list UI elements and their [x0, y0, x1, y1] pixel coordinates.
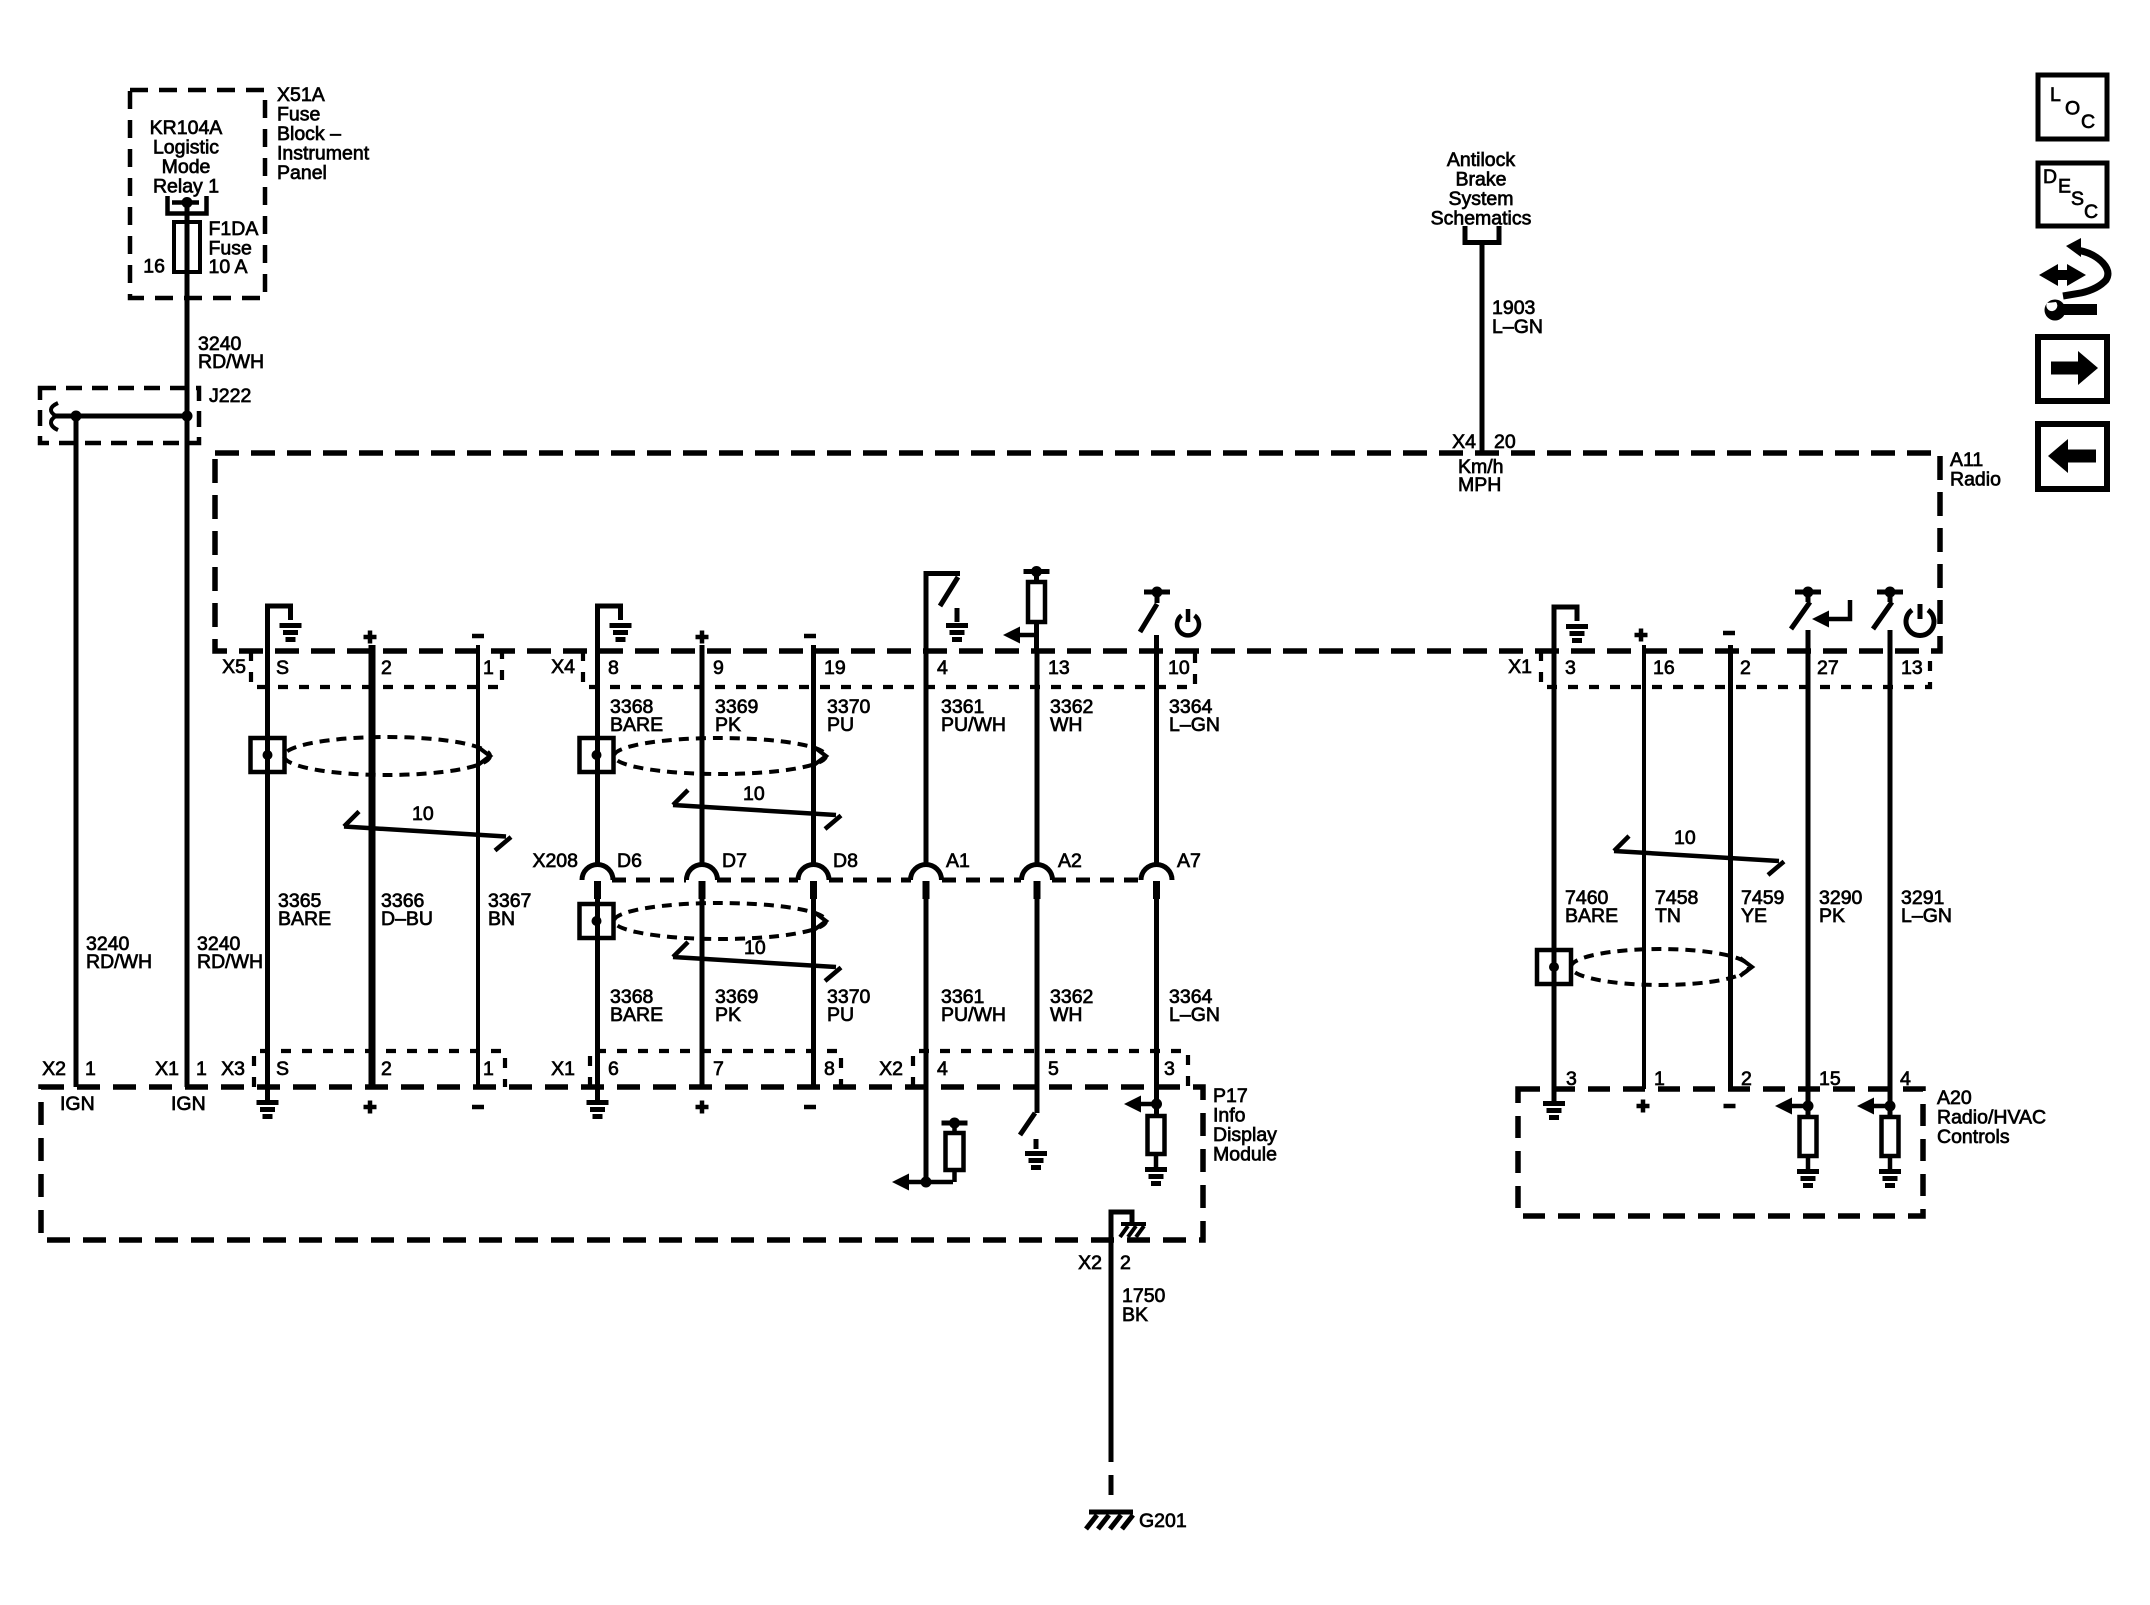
svg-text:RD/WH: RD/WH — [198, 351, 264, 373]
svg-text:19: 19 — [824, 657, 846, 679]
wire display X2-3 internal — [1154, 1087, 1159, 1116]
svg-text:BARE: BARE — [278, 908, 331, 930]
switch to ground display X2-5 — [1020, 1087, 1037, 1149]
svg-text:RD/WH: RD/WH — [197, 951, 263, 973]
svg-text:X1: X1 — [551, 1058, 575, 1080]
svg-text:10 A: 10 A — [209, 256, 248, 278]
ground G201 — [1086, 1512, 1133, 1529]
arrowhead controls A20-15 — [1775, 1098, 1792, 1115]
harness slash mid upper 10 — [673, 790, 841, 829]
relay KR104A contact bracket — [168, 196, 207, 214]
resistor leads display X2-4 — [952, 1123, 957, 1182]
wire display X2-4 internal — [924, 1087, 929, 1184]
svg-text:YE: YE — [1741, 905, 1767, 927]
svg-text:X1: X1 — [155, 1058, 179, 1080]
plus controls A20-1 — [1637, 1100, 1650, 1113]
wire controls A20-15 internal — [1806, 1089, 1811, 1117]
A20 controls dashed box — [1518, 1089, 1923, 1216]
pin stub X208 A1 — [923, 881, 930, 899]
wire J222 horizontal — [54, 414, 187, 419]
junction box J222 dashed — [40, 388, 199, 443]
svg-text:PK: PK — [715, 1004, 741, 1026]
ground bars display X2-5 — [1025, 1154, 1047, 1168]
J222 splice continuation hook — [51, 403, 58, 430]
svg-text:3: 3 — [1164, 1058, 1175, 1080]
wire 3368 BARE shield — [595, 651, 600, 1100]
svg-text:BARE: BARE — [1565, 905, 1618, 927]
plus radio X1-16 — [1635, 629, 1648, 642]
shield box 3368 lower — [580, 904, 614, 938]
svg-text:S: S — [276, 1058, 289, 1080]
svg-text:BARE: BARE — [610, 1004, 663, 1026]
svg-text:10: 10 — [743, 783, 765, 805]
ground bars display X2-3 — [1145, 1170, 1167, 1184]
wire 3240 RD/WH to X1-1 IGN — [185, 416, 190, 1087]
icon forward arrow — [2051, 362, 2080, 375]
plus display X3-2 — [364, 1101, 377, 1114]
minus radio X1-2 — [1723, 631, 1735, 636]
twisted pair chevron mid upper — [814, 747, 826, 765]
svg-text:BARE: BARE — [610, 714, 663, 736]
shield box 7460 — [1537, 950, 1571, 984]
svg-text:1: 1 — [483, 657, 494, 679]
pin stub X208 D6 — [594, 881, 601, 899]
connector X3 pin box — [254, 1051, 505, 1087]
switch radio X1-27 — [1791, 594, 1810, 629]
svg-text:C: C — [2084, 201, 2098, 223]
svg-text:PK: PK — [1819, 905, 1845, 927]
svg-text:S: S — [276, 657, 289, 679]
svg-text:Panel: Panel — [277, 162, 327, 184]
signal arrow display X2-4 — [906, 1180, 953, 1185]
svg-text:8: 8 — [824, 1058, 835, 1080]
wire 3364 L-GN — [1154, 651, 1159, 1087]
connector X1 radio pin box — [1541, 651, 1930, 687]
icon back arrow — [2066, 450, 2096, 463]
plus display X1-7 — [696, 1101, 709, 1114]
wire 1750 BK — [1109, 1240, 1114, 1442]
svg-text:X1: X1 — [1508, 656, 1532, 678]
svg-text:MPH: MPH — [1458, 474, 1501, 496]
minus controls A20-2 — [1724, 1104, 1736, 1109]
rail bar radio X4-10 — [1144, 590, 1170, 595]
pin stub X208 A7 — [1153, 881, 1160, 899]
svg-text:X5: X5 — [222, 656, 246, 678]
pin stub X208 D8 — [810, 881, 817, 899]
harness slash right 10 — [1614, 836, 1784, 875]
wire 3290 PK — [1806, 630, 1811, 1089]
arrowhead display X2-4 — [892, 1174, 909, 1191]
svg-text:10: 10 — [1674, 827, 1696, 849]
svg-text:2: 2 — [1740, 657, 1751, 679]
svg-text:2: 2 — [381, 1058, 392, 1080]
rail bar radio X1-13 — [1877, 590, 1903, 595]
signal arrow radio X1-27 — [1826, 600, 1850, 619]
svg-text:16: 16 — [1653, 657, 1675, 679]
svg-text:A2: A2 — [1058, 850, 1082, 872]
svg-text:4: 4 — [1900, 1068, 1911, 1090]
svg-text:5: 5 — [1048, 1058, 1059, 1080]
svg-text:Schematics: Schematics — [1431, 208, 1532, 230]
twisted pair ellipse right — [1571, 949, 1749, 985]
icon LOC box — [2038, 75, 2107, 139]
twisted pair ellipse mid upper — [614, 738, 826, 774]
svg-text:TN: TN — [1655, 905, 1681, 927]
wire relay to fuse — [185, 204, 190, 222]
minus radio X5-1 — [472, 634, 484, 639]
svg-text:C: C — [2081, 111, 2095, 133]
junction dot J222 right — [182, 411, 193, 422]
ground bars controls A20-15 — [1797, 1172, 1819, 1186]
signal arrow radio X4-13 — [1017, 633, 1037, 638]
twisted pair chevron right — [1740, 958, 1752, 976]
rail dot radio X4-10 — [1152, 587, 1163, 598]
arrowhead radio X1-27 — [1812, 611, 1829, 628]
ground bars radio X5-S — [280, 626, 302, 640]
wire 3370 PU — [811, 645, 816, 1087]
svg-text:3: 3 — [1566, 1068, 1577, 1090]
arc X208 A7 — [1141, 865, 1172, 881]
arrowhead controls A20-4 — [1857, 1098, 1874, 1115]
minus radio X4-19 — [804, 634, 816, 639]
svg-text:L–GN: L–GN — [1492, 316, 1543, 338]
resistor lead display X2-3 — [1154, 1154, 1159, 1167]
relay contact dot — [182, 197, 193, 208]
svg-text:10: 10 — [1168, 657, 1190, 679]
wire 1750 BK dashed — [1109, 1442, 1114, 1506]
rail bar display X2-4 — [942, 1121, 968, 1126]
arc X208 D7 — [687, 865, 718, 881]
shield box 3368 upper — [580, 738, 614, 772]
svg-text:9: 9 — [713, 657, 724, 679]
switch radio X1-13 — [1873, 594, 1892, 629]
wire 3367 BN — [476, 645, 480, 1087]
harness slash mid lower 10 — [673, 942, 841, 981]
arrowhead display X2-3 — [1124, 1096, 1141, 1113]
svg-text:16: 16 — [143, 256, 165, 278]
wire fuse internal — [185, 222, 190, 272]
svg-text:1: 1 — [1654, 1068, 1665, 1090]
svg-text:1: 1 — [483, 1058, 494, 1080]
svg-text:BK: BK — [1122, 1304, 1148, 1326]
fuse F1DA body — [174, 222, 200, 272]
wire 7458 TN — [1642, 645, 1646, 1089]
svg-text:X3: X3 — [221, 1058, 245, 1080]
svg-text:10: 10 — [412, 803, 434, 825]
shield dot 3365 — [263, 750, 273, 760]
junction dot display X2-4 — [921, 1177, 932, 1188]
signal arrow controls A20-4 — [1871, 1104, 1890, 1109]
svg-text:15: 15 — [1819, 1068, 1841, 1090]
wire 7459 YE — [1728, 645, 1733, 1089]
svg-text:D–BU: D–BU — [381, 908, 433, 930]
arc X208 A1 — [911, 865, 942, 881]
svg-text:IGN: IGN — [171, 1093, 206, 1115]
wire 3362 WH — [1035, 651, 1040, 1087]
svg-text:RD/WH: RD/WH — [86, 951, 152, 973]
wire ABS 1903 L-GN — [1480, 244, 1485, 453]
svg-text:X4: X4 — [1452, 431, 1476, 453]
ground bars controls A20-3 — [1543, 1104, 1565, 1118]
junction dot J222 left — [71, 411, 82, 422]
ground bracket radio X5-S — [268, 606, 291, 651]
twisted pair ellipse mid lower — [614, 903, 826, 939]
power symbol radio X4-10 — [1177, 616, 1199, 636]
resistor radio X4-13 — [1028, 582, 1045, 622]
switch to ground radio X4-4 — [924, 571, 961, 651]
ground bars radio X1-3 — [1566, 627, 1588, 641]
connector X4 pin box — [583, 651, 1195, 687]
arc X208 A2 — [1022, 865, 1053, 881]
P17 module dashed box — [41, 1087, 1203, 1240]
wire controls A20-4 internal — [1888, 1089, 1893, 1117]
svg-text:S: S — [2071, 188, 2084, 210]
radio A11 dashed box — [215, 453, 1940, 651]
relay contact wire — [172, 200, 199, 205]
ground bars radio X4-4 — [946, 626, 968, 640]
arc X208 D6 — [582, 865, 613, 881]
rail bar radio X1-27 — [1795, 590, 1821, 595]
svg-text:Module: Module — [1213, 1144, 1277, 1166]
chassis ground X2-2 — [1120, 1224, 1146, 1237]
svg-text:2: 2 — [1120, 1252, 1131, 1274]
resistor controls A20-4 — [1882, 1117, 1899, 1156]
resistor display X2-3 — [1148, 1116, 1165, 1154]
wire 3240 RD/WH to X2-1 IGN — [74, 416, 79, 1087]
svg-text:E: E — [2058, 176, 2071, 198]
svg-text:PU/WH: PU/WH — [941, 714, 1006, 736]
svg-text:20: 20 — [1494, 431, 1516, 453]
connector X1 display pin box — [590, 1051, 841, 1087]
svg-text:13: 13 — [1901, 657, 1923, 679]
plus radio X4-9 — [696, 631, 709, 644]
svg-text:IGN: IGN — [60, 1093, 95, 1115]
svg-text:4: 4 — [937, 657, 948, 679]
resistor lead controls A20-4 — [1888, 1156, 1893, 1169]
wire 3365 BARE shield S — [265, 651, 270, 1100]
svg-text:WH: WH — [1050, 714, 1083, 736]
ground bars radio X4-8 — [610, 626, 632, 640]
minus display X3-1 — [472, 1105, 484, 1110]
svg-text:Radio: Radio — [1950, 469, 2001, 491]
svg-text:X4: X4 — [551, 656, 575, 678]
svg-text:X208: X208 — [532, 850, 578, 872]
svg-text:G201: G201 — [1139, 1510, 1187, 1532]
twisted pair chevron left — [478, 747, 490, 765]
svg-text:X2: X2 — [879, 1058, 903, 1080]
svg-text:D6: D6 — [617, 850, 642, 872]
arrowhead radio X4-13 — [1003, 627, 1020, 644]
wire 3361 PU/WH — [924, 651, 929, 1087]
icon DESC box — [2038, 163, 2107, 226]
shield dot 3368 upper — [592, 750, 602, 760]
icon back arrow box — [2038, 424, 2107, 489]
svg-text:PU/WH: PU/WH — [941, 1004, 1006, 1026]
arc X208 D8 — [798, 865, 829, 881]
ground bracket radio X1-3 — [1554, 607, 1577, 651]
svg-text:13: 13 — [1048, 657, 1070, 679]
svg-text:J222: J222 — [209, 385, 251, 407]
connector X2 display pin box — [913, 1051, 1188, 1087]
wire 3369 PK — [700, 645, 705, 1087]
pin stub X208 D7 — [699, 881, 706, 899]
svg-text:X2: X2 — [1078, 1252, 1102, 1274]
svg-text:10: 10 — [744, 937, 766, 959]
twisted pair chevron mid lower — [814, 912, 826, 930]
svg-text:L–GN: L–GN — [1169, 1004, 1220, 1026]
rail dot radio X1-27 — [1803, 587, 1814, 598]
ground bars display X3-S — [257, 1103, 279, 1117]
svg-text:6: 6 — [608, 1058, 619, 1080]
svg-text:3: 3 — [1565, 657, 1576, 679]
svg-text:8: 8 — [608, 657, 619, 679]
svg-text:A7: A7 — [1177, 850, 1201, 872]
shield dot 3368 lower — [592, 916, 602, 926]
svg-text:BN: BN — [488, 908, 515, 930]
signal arrow display X2-3 — [1138, 1102, 1157, 1107]
svg-text:O: O — [2065, 98, 2080, 120]
svg-text:PU: PU — [827, 714, 854, 736]
plus radio X5-2 — [364, 631, 377, 644]
signal arrow controls A20-15 — [1789, 1104, 1808, 1109]
svg-text:A1: A1 — [946, 850, 970, 872]
resistor leads radio X4-13 — [1034, 574, 1039, 651]
svg-text:L–GN: L–GN — [1901, 905, 1952, 927]
svg-text:PK: PK — [715, 714, 741, 736]
svg-text:L: L — [2050, 84, 2061, 106]
rail dot radio X1-13 — [1885, 587, 1896, 598]
power symbol bar radio X4-10 — [1186, 609, 1191, 622]
rail dot display X2-4 — [949, 1118, 960, 1129]
shield dot 7460 — [1549, 962, 1559, 972]
harness slash left 10 — [344, 812, 511, 851]
connector X208 dashed line — [612, 878, 1141, 883]
junction dot controls A20-15 — [1803, 1101, 1814, 1112]
svg-text:2: 2 — [381, 657, 392, 679]
power symbol radio X1-13 — [1906, 610, 1934, 635]
ground bars display X1-6 — [587, 1103, 609, 1117]
ground bracket radio X4-8 — [598, 606, 621, 651]
svg-text:Relay 1: Relay 1 — [153, 176, 219, 198]
svg-text:2: 2 — [1741, 1068, 1752, 1090]
ground lead X2-2 display — [1111, 1212, 1132, 1240]
resistor display X2-4 — [946, 1133, 964, 1170]
svg-text:WH: WH — [1050, 1004, 1083, 1026]
switch radio X4-10 — [1140, 594, 1157, 651]
power symbol bar radio X1-13 — [1918, 604, 1923, 619]
wire 3366 D-BU — [369, 645, 376, 1087]
resistor lead controls A20-15 — [1806, 1156, 1811, 1169]
svg-text:7: 7 — [713, 1058, 724, 1080]
junction dot display X2-3 — [1151, 1099, 1162, 1110]
svg-text:Controls: Controls — [1937, 1126, 2010, 1148]
wire 3240 fuse to J222 — [185, 272, 190, 416]
svg-text:D: D — [2043, 166, 2057, 188]
fuse block X51A dashed box — [130, 90, 265, 298]
svg-text:27: 27 — [1817, 657, 1839, 679]
twisted pair ellipse left — [284, 737, 490, 775]
rail bar radio X4-13 — [1024, 569, 1050, 574]
icon wrench arrows — [2039, 238, 2108, 321]
wire 3291 L-GN — [1888, 630, 1893, 1089]
junction dot controls A20-4 — [1885, 1101, 1896, 1112]
svg-text:D8: D8 — [833, 850, 858, 872]
rail dot radio X4-13 — [1031, 566, 1042, 577]
shield box 3365 — [251, 738, 285, 772]
svg-text:4: 4 — [937, 1058, 948, 1080]
resistor controls A20-15 — [1800, 1117, 1817, 1156]
off-page bracket ABS — [1465, 226, 1499, 243]
svg-text:1: 1 — [196, 1058, 207, 1080]
connector X5 pin box — [251, 651, 502, 687]
icon forward arrow box — [2038, 337, 2107, 401]
svg-text:D7: D7 — [722, 850, 747, 872]
svg-text:X2: X2 — [42, 1058, 66, 1080]
minus display X1-8 — [804, 1105, 816, 1110]
svg-text:PU: PU — [827, 1004, 854, 1026]
pin stub X208 A2 — [1034, 881, 1041, 899]
svg-text:1: 1 — [85, 1058, 96, 1080]
ground bars controls A20-4 — [1879, 1172, 1901, 1186]
wire 7460 BARE shield — [1552, 651, 1557, 1101]
svg-text:L–GN: L–GN — [1169, 714, 1220, 736]
